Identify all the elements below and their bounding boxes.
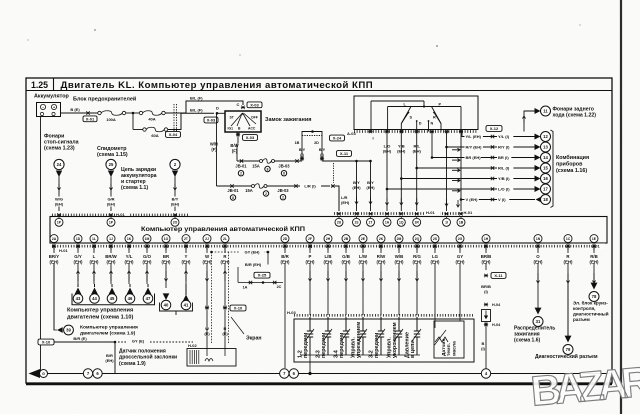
wire BR(EH) from TCU pin at x=166 bbox=[160, 246, 173, 288]
wire L/O(EH) selector to TCU bbox=[383, 132, 392, 212]
ground symbol bbox=[29, 369, 48, 378]
terminals 43-47 bracket to engine ECU bbox=[72, 294, 155, 305]
terminal 45 bbox=[107, 284, 117, 303]
bus H-01 mid segment bbox=[334, 210, 478, 216]
wire R/Y vertical to TCU bbox=[445, 132, 448, 212]
wire BR/W(EH) from TCU pin at x=111 bbox=[105, 246, 118, 284]
direction arrows cluster bbox=[452, 148, 460, 192]
bus H-01 left segment bbox=[52, 212, 188, 218]
terminal 78 cruise control bbox=[573, 283, 609, 322]
wire R/L(EH) selector to TCU bbox=[413, 132, 422, 212]
wire battery negative to ground bus bbox=[40, 117, 42, 374]
speed sensor H-02 box bbox=[187, 343, 236, 366]
wire battery B(E) to fuse block bbox=[61, 107, 98, 113]
wire G/B(EH) from TCU pin at x=346 bbox=[340, 246, 353, 315]
fuse 40A bbox=[139, 111, 165, 122]
terminal 41 bbox=[160, 284, 193, 315]
fuse row 1: JB-01 15A JB-03 bbox=[235, 159, 302, 176]
TCU bottom pin 2E bbox=[359, 235, 367, 250]
TCU top pin 1A bbox=[383, 212, 391, 226]
wire L/B(EH) from TCU pin at x=328 bbox=[322, 246, 335, 315]
wire Y/B(EH) selector to TCU bbox=[397, 132, 406, 212]
wire B/W(F) down to fuse row 1 bbox=[230, 143, 238, 161]
terminal 43 bbox=[73, 284, 83, 303]
solenoid 2-3 передачи bbox=[315, 317, 332, 358]
wire W/R(F) from ignition D down bbox=[210, 113, 218, 186]
connector X-10 right bbox=[205, 305, 246, 311]
TCU bottom pin 1J bbox=[107, 235, 115, 250]
TCU bottom pin 1K bbox=[125, 235, 133, 250]
TCU bottom pin 2S bbox=[431, 235, 439, 250]
TCU bottom pin 2K bbox=[377, 235, 385, 250]
bus A-03 bbox=[347, 130, 477, 141]
junction node after 100A bbox=[126, 112, 140, 130]
fuse row 2: JB-01 15A JB-03 to L/R bbox=[217, 183, 350, 211]
wire R/B(EH) from TCU pin at x=594 bbox=[588, 246, 601, 288]
wire B/L(F) upper from 40A to ignition C bbox=[165, 96, 245, 114]
connector X-04 bbox=[166, 104, 181, 137]
page binding edge line bbox=[620, 0, 622, 414]
wire W(EH) from TCU pin at x=207 bbox=[201, 246, 214, 306]
grommet 7 6 middle bbox=[280, 369, 299, 378]
wire B/L(F) lower from 60A to ignition D bbox=[168, 108, 225, 130]
wire LG(EH) from TCU pin at x=435 bbox=[429, 246, 442, 315]
wire Y/L(EH) from TCU pin at x=129 bbox=[123, 246, 136, 284]
wire R(EH) from TCU pin at x=568 bbox=[562, 246, 575, 340]
selector contacts L S D N P R bbox=[401, 102, 441, 131]
ground bus bbox=[44, 373, 611, 375]
ignition switch (Замок зажигания) bbox=[216, 102, 311, 132]
grommet 7 6 left bbox=[83, 369, 102, 378]
wire BR/B(EH) from TCU pin at x=486 bbox=[480, 246, 493, 270]
cluster row terminal 13 bbox=[445, 142, 550, 152]
TCU bottom pin 2F bbox=[306, 235, 314, 250]
scan noise overlay bbox=[0, 0, 1, 1]
solenoid Управл. упреждением bbox=[350, 317, 367, 358]
terminal 2 wire B/Y(EH) bbox=[168, 159, 182, 211]
wire G/O(EH) from TCU pin at x=147 bbox=[141, 246, 154, 284]
terminal 44 bbox=[90, 284, 100, 303]
wire R(EH) from TCU pin at x=225 bbox=[219, 246, 232, 306]
TCU top pin 1P bbox=[55, 213, 63, 226]
wire B/R(EH) to ground bus bbox=[105, 342, 115, 374]
cluster row terminal 17 bbox=[386, 184, 551, 194]
TCU bottom pin 2L bbox=[221, 235, 229, 250]
cluster row terminal 14 bbox=[431, 153, 551, 163]
shield drain wires (Экран) bbox=[210, 251, 228, 344]
terminal 46 bbox=[125, 284, 135, 303]
cluster row terminal 15 bbox=[415, 163, 550, 173]
connector X-10 throttle bbox=[38, 336, 193, 345]
shield label (Экран) bbox=[231, 317, 261, 342]
cluster bracket and label bbox=[551, 130, 590, 208]
solenoid 1-2 передачи bbox=[297, 317, 314, 358]
TCU bottom pin 2T bbox=[182, 235, 190, 250]
wire BR/Y to terminal 39 engine ECU bbox=[54, 263, 138, 336]
TCU top pin 1I bbox=[443, 212, 451, 226]
connector X-12 bbox=[486, 126, 502, 132]
wire from selector tap to BR row bbox=[431, 132, 433, 158]
wire GY(EH) shield link bbox=[212, 249, 270, 255]
TCU top pin 2O bbox=[171, 213, 179, 226]
TCU bottom pin 2J bbox=[203, 235, 211, 250]
wire GY(EH) from TCU pin at x=460 bbox=[454, 246, 467, 315]
TCU bottom pin 1M bbox=[143, 235, 151, 250]
TCU top pin 1B bbox=[457, 212, 465, 226]
TCU top pin 1P bbox=[107, 213, 115, 226]
TCU bottom pin 1E bbox=[590, 235, 598, 250]
TCU top pin 1R bbox=[413, 212, 421, 226]
oil temp sensor (Датчик темп. масла) bbox=[434, 315, 464, 358]
TCU top pin 1T bbox=[367, 212, 375, 226]
terminal 24 wire W/G(EH) bbox=[52, 159, 66, 211]
charging circuit note (схема 1.1) bbox=[121, 167, 157, 191]
terminal 40 bbox=[161, 293, 171, 309]
fuse 100A bbox=[98, 111, 126, 122]
TCU top pin 2U bbox=[335, 212, 343, 226]
TCU bottom pin 1N bbox=[534, 235, 542, 250]
terminal 79 diagnostic connector bbox=[535, 283, 598, 360]
solenoid Управл. укорожением bbox=[386, 317, 403, 358]
page frame bbox=[26, 78, 612, 384]
terminal 47 bbox=[143, 284, 153, 303]
solenoid Давление в цепи bbox=[404, 317, 421, 358]
bus H-03 bbox=[287, 310, 474, 316]
TCU bottom pin 1H bbox=[482, 235, 490, 250]
wire O(EH) from TCU pin at x=538 bbox=[532, 246, 545, 308]
battery (Аккумулятор) bbox=[34, 94, 69, 117]
TCU bottom pin 2D bbox=[281, 235, 289, 250]
connector X-11 bbox=[334, 151, 352, 183]
wire B/Y to selector feeds bbox=[322, 160, 375, 211]
throttle position sensor note (схема 1.9) bbox=[119, 349, 177, 368]
stop lamps note (схема 1.23) bbox=[44, 134, 79, 152]
wire V vertical to TCU bbox=[456, 132, 461, 212]
connector X-24 pins 1B 2D bbox=[295, 130, 345, 161]
solenoid common return bbox=[300, 355, 420, 375]
wire L(EH) from TCU pin at x=94 bbox=[88, 246, 101, 284]
TCU box (Компьютер управления автоматической КПП) bbox=[50, 217, 607, 244]
wire to reverse lamps bbox=[522, 108, 540, 132]
solenoid 3-2 передачи bbox=[368, 317, 385, 358]
cluster row terminal 18 bbox=[460, 195, 551, 205]
connector X-03 bottom bbox=[236, 132, 258, 144]
TCU bottom pin 1D bbox=[74, 235, 82, 250]
solenoid 3-4 передачи bbox=[333, 317, 350, 358]
TCU bottom pin 2A bbox=[50, 235, 58, 250]
TCU bottom pin 2M bbox=[395, 235, 403, 250]
terminal 11 reverse lamps bbox=[541, 106, 597, 119]
wire R/W(EH) from TCU pin at x=381 bbox=[375, 246, 388, 315]
connector X-03 top bbox=[247, 102, 262, 108]
TCU bottom pin 2Q bbox=[413, 235, 421, 250]
terminal 31 distributor bbox=[514, 308, 555, 344]
watermark BAZAR bbox=[529, 357, 640, 414]
TCU top pin 1Q bbox=[397, 212, 405, 226]
terminal 25 wire G/R(EH) bbox=[104, 159, 118, 211]
wire R/G(EH) from TCU pin at x=417 bbox=[411, 246, 424, 315]
connector X-01 bbox=[83, 111, 97, 121]
connector X-03 left bbox=[204, 117, 218, 123]
wires W/R(E) into speed sensor bbox=[204, 308, 228, 349]
engine ECU note (схема 1.10) bbox=[67, 308, 133, 321]
wire P(EH) from TCU pin at x=310 bbox=[304, 246, 317, 315]
wire G/Y(EH) from TCU pin at x=78 bbox=[72, 246, 85, 284]
TCU bottom pin 1L bbox=[90, 235, 98, 250]
cluster row terminal 16 bbox=[400, 174, 551, 184]
selector switch box bbox=[354, 96, 478, 132]
TCU bottom pin 2H bbox=[324, 235, 332, 250]
wire L/W(EH) from TCU pin at x=363 bbox=[357, 246, 370, 315]
wire W/B(EH) from TCU pin at x=399 bbox=[393, 246, 406, 315]
TCU bottom pin 2G bbox=[456, 235, 464, 250]
TCU bottom pin 2B bbox=[342, 235, 350, 250]
wire BR/Y(EH) from TCU pin at x=54 bbox=[48, 246, 61, 330]
TCU top pin 1S bbox=[353, 212, 361, 226]
speedometer note (схема 1.15) bbox=[97, 146, 128, 158]
scan speckles bbox=[28, 25, 581, 56]
solenoid assembly box bbox=[294, 319, 474, 362]
TCU bottom pin 1O bbox=[162, 235, 170, 250]
connector X-25 stub bbox=[238, 252, 283, 290]
wire Y(EH) from TCU pin at x=186 bbox=[180, 246, 193, 288]
wire BR/B with X-11 and H-04 connectors bbox=[481, 273, 506, 374]
grommet 4 bbox=[481, 369, 490, 378]
cluster row terminal 12 bbox=[462, 132, 551, 142]
bus H-01 TCU bottom bbox=[52, 243, 605, 253]
wire B/R(EH) from TCU pin at x=285 bbox=[279, 246, 292, 368]
TCU bottom pin 1C bbox=[564, 235, 572, 250]
fuse 60A bbox=[133, 127, 168, 138]
